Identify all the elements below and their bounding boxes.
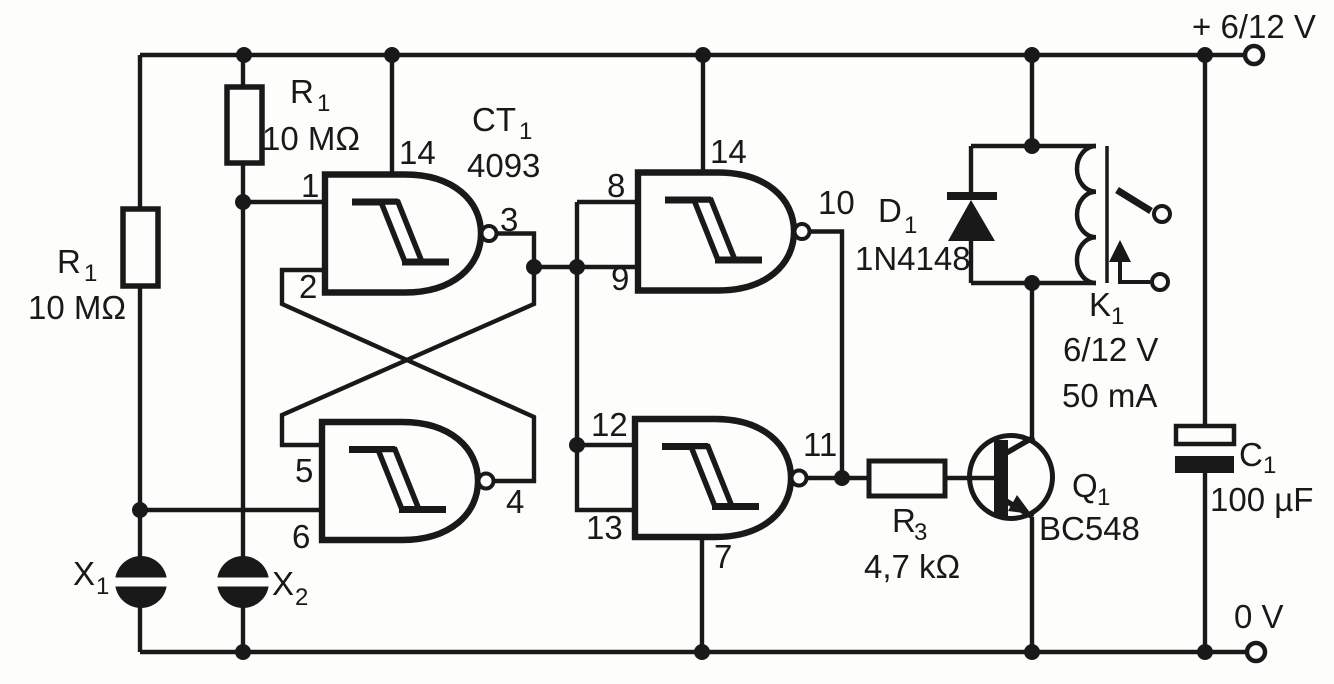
wire C1 branch from top rail	[1203, 55, 1207, 427]
capacitor C1 bottom plate	[1175, 456, 1234, 473]
wire gate U1A output cross-coupling to pin 5	[282, 234, 534, 446]
svg-text:CT: CT	[472, 101, 516, 138]
relay K1 core bar	[1105, 146, 1109, 283]
wire emitter of Q1 to ground rail	[1030, 517, 1034, 652]
svg-text:11: 11	[803, 426, 837, 463]
svg-text:3: 3	[914, 519, 927, 546]
relay K1 switch lever	[1117, 190, 1151, 211]
svg-text:4: 4	[506, 483, 524, 520]
transistor Q1 emitter arrowhead	[1008, 495, 1031, 514]
svg-text:BC548: BC548	[1039, 510, 1140, 547]
nand gate U1B pins 5,6,4	[322, 422, 494, 540]
resistor R1 (left, touch pull-up)	[123, 209, 158, 286]
wire relay/diode loop top	[971, 144, 1096, 148]
wire pin 14 supply of U1A	[390, 55, 394, 177]
nand gate U1C pins 8,9,10	[638, 173, 810, 291]
nand gate U1A pins 1,2,3	[325, 175, 497, 293]
junction relay loop bottom	[1024, 275, 1040, 291]
junction bottom rail at pin 7	[694, 644, 710, 660]
svg-text:5: 5	[295, 452, 313, 489]
svg-text:12: 12	[591, 406, 628, 443]
svg-text:+ 6/12 V: + 6/12 V	[1192, 8, 1316, 45]
svg-text:100 µF: 100 µF	[1210, 481, 1313, 518]
relay K1 contact terminal upper	[1154, 206, 1170, 222]
resistor R3 base resistor	[869, 461, 945, 496]
wire left vertical branch (R1/X1)	[138, 55, 142, 652]
svg-text:10 MΩ: 10 MΩ	[28, 289, 126, 326]
wire collector of Q1 to relay	[1030, 283, 1034, 437]
svg-text:7: 7	[714, 538, 732, 575]
svg-text:1: 1	[84, 260, 97, 287]
wire relay/diode loop bottom	[971, 281, 1096, 285]
svg-text:9: 9	[611, 260, 629, 297]
svg-text:0 V: 0 V	[1234, 598, 1284, 635]
svg-text:1: 1	[1097, 484, 1110, 511]
wire C1 to bottom rail	[1203, 472, 1207, 652]
transistor Q1 collector stroke	[1001, 437, 1034, 456]
touch contact X2	[217, 556, 269, 608]
wire R3 to base of Q1	[945, 476, 994, 480]
wire pin 13 input	[577, 445, 635, 510]
junction node pin 9 feed	[569, 259, 585, 275]
junction relay loop top	[1024, 138, 1040, 154]
junction top rail at pin 14 U1A	[384, 47, 400, 63]
diode D1 triangle	[948, 200, 995, 241]
nand gate U1D pins 12,13,11	[635, 419, 807, 537]
svg-text:1: 1	[904, 212, 917, 239]
svg-text:3: 3	[500, 201, 518, 238]
svg-text:4093: 4093	[467, 147, 540, 184]
wire relay branch from top rail	[1030, 55, 1034, 146]
wire U1D output pin 11 to R3	[806, 476, 869, 480]
touch contact X1	[115, 556, 167, 608]
svg-text:K: K	[1089, 286, 1111, 323]
wire diode anode lead	[969, 240, 973, 283]
svg-text:6: 6	[292, 518, 310, 555]
svg-text:2: 2	[295, 584, 308, 611]
svg-text:10: 10	[818, 184, 855, 221]
junction node pin 12 feed	[569, 437, 585, 453]
wire node from U1A output to gate U1C pin 9	[534, 265, 638, 269]
junction top rail at R1	[236, 47, 252, 63]
junction bottom rail at X2	[235, 644, 251, 660]
transistor Q1 base bar	[994, 440, 1008, 516]
svg-text:10 MΩ: 10 MΩ	[262, 120, 360, 157]
svg-text:1N4148: 1N4148	[855, 240, 971, 277]
relay K1 coil	[1077, 146, 1096, 283]
diode D1 cathode bar	[947, 192, 997, 200]
svg-text:1: 1	[1111, 303, 1124, 330]
relay K1 actuation arrow	[1109, 240, 1131, 262]
wire top supply rail	[140, 53, 1245, 57]
svg-text:R: R	[57, 243, 81, 280]
svg-text:X: X	[73, 555, 95, 592]
svg-text:Q: Q	[1072, 467, 1098, 504]
svg-text:13: 13	[586, 509, 623, 546]
junction top rail at C1 branch	[1197, 47, 1213, 63]
junction node pin 1	[235, 194, 251, 210]
wire pin 12 input	[577, 443, 635, 447]
svg-text:8: 8	[607, 167, 625, 204]
transistor Q1 emitter stroke	[1001, 498, 1033, 517]
terminal +6/12V	[1245, 46, 1263, 64]
terminal 0V	[1247, 643, 1265, 661]
svg-text:50 mA: 50 mA	[1062, 377, 1157, 414]
svg-text:14: 14	[710, 133, 747, 170]
svg-text:2: 2	[299, 268, 317, 305]
svg-text:R: R	[892, 502, 916, 539]
svg-text:1: 1	[301, 167, 319, 204]
wire pin 1 input	[243, 200, 325, 204]
wire diode cathode lead	[969, 146, 973, 195]
junction node pin 11	[834, 470, 850, 486]
svg-text:6/12 V: 6/12 V	[1063, 331, 1158, 368]
capacitor C1 top plate	[1176, 426, 1234, 444]
junction node pin 6	[132, 502, 148, 518]
svg-text:1: 1	[317, 90, 330, 117]
svg-text:1: 1	[519, 118, 532, 145]
wire bottom 0V rail	[140, 650, 1247, 654]
wire pin 6 input	[140, 508, 322, 512]
wire pin 2 cross-coupling to gate U1B output	[282, 270, 534, 481]
resistor R1 (second, touch pull-up)	[227, 87, 262, 163]
junction top rail at pin 14 U1C	[695, 47, 711, 63]
wire vertical feed pins 8/12/13	[575, 202, 579, 445]
wire pin 14 supply of U1C	[701, 55, 705, 175]
svg-text:4,7 kΩ: 4,7 kΩ	[864, 548, 960, 585]
junction bottom rail at emitter	[1024, 644, 1040, 660]
transistor Q1 circle	[970, 436, 1053, 519]
wire X2 / R1 branch vertical	[241, 55, 245, 652]
wire pin 8 input	[577, 200, 638, 204]
wire U1C output pin 10 down to pin 11 node	[809, 232, 842, 479]
junction top rail at relay branch	[1024, 47, 1040, 63]
svg-text:C: C	[1239, 436, 1263, 473]
svg-text:14: 14	[399, 134, 436, 171]
wire pin 7 ground of U1D	[700, 538, 704, 652]
junction bottom rail at C1	[1197, 644, 1213, 660]
svg-text:R: R	[290, 73, 314, 110]
svg-text:D: D	[878, 192, 902, 229]
relay K1 contact terminal lower	[1152, 274, 1168, 290]
junction node U1A output	[526, 259, 542, 275]
svg-text:1: 1	[96, 573, 109, 600]
svg-text:X: X	[272, 565, 294, 602]
svg-text:1: 1	[1263, 452, 1276, 479]
